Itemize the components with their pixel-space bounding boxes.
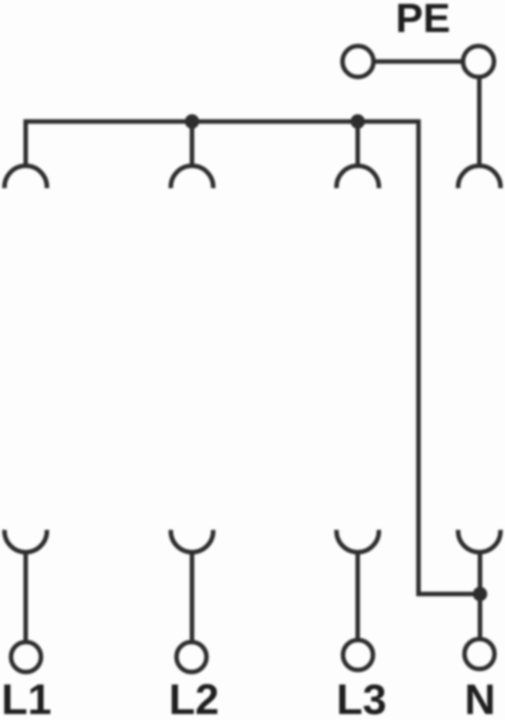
junction dot node N [473,587,487,601]
junction dot node L3 [351,114,365,128]
contact cup bottom L1 [4,530,46,552]
terminal circle L1 [11,642,41,672]
junction dot node L2 [185,114,199,128]
wire L1 cup to circle [23,552,28,642]
contact arch top L3 [337,166,379,188]
terminal circle PE right [463,46,494,77]
terminal circle L3 [343,640,373,670]
terminal circle PE left [343,46,374,77]
contact cup bottom L2 [171,530,213,552]
svg-text:L1: L1 [1,676,51,720]
svg-text:L2: L2 [169,676,219,720]
wire bus from L1 over to N drop [26,122,480,595]
wire stub node L3 [355,122,360,167]
wire PE circle to contact [477,77,482,166]
wire L3 cup to circle [355,552,360,640]
contact cup bottom N [458,530,500,552]
wire L2 cup to circle [190,552,195,642]
terminal circle L2 [177,642,207,672]
wire PE bridge [358,59,478,64]
wire N cup to circle [478,552,483,639]
contact arch top L2 [171,166,213,188]
wire stub node L2 [190,122,195,167]
svg-text:N: N [464,676,495,720]
contact arch top PE [458,166,500,188]
terminal circle N [465,639,495,669]
svg-text:L3: L3 [336,676,386,720]
svg-text:PE: PE [396,0,451,41]
contact arch top L1 [4,166,46,188]
contact cup bottom L3 [337,530,379,552]
